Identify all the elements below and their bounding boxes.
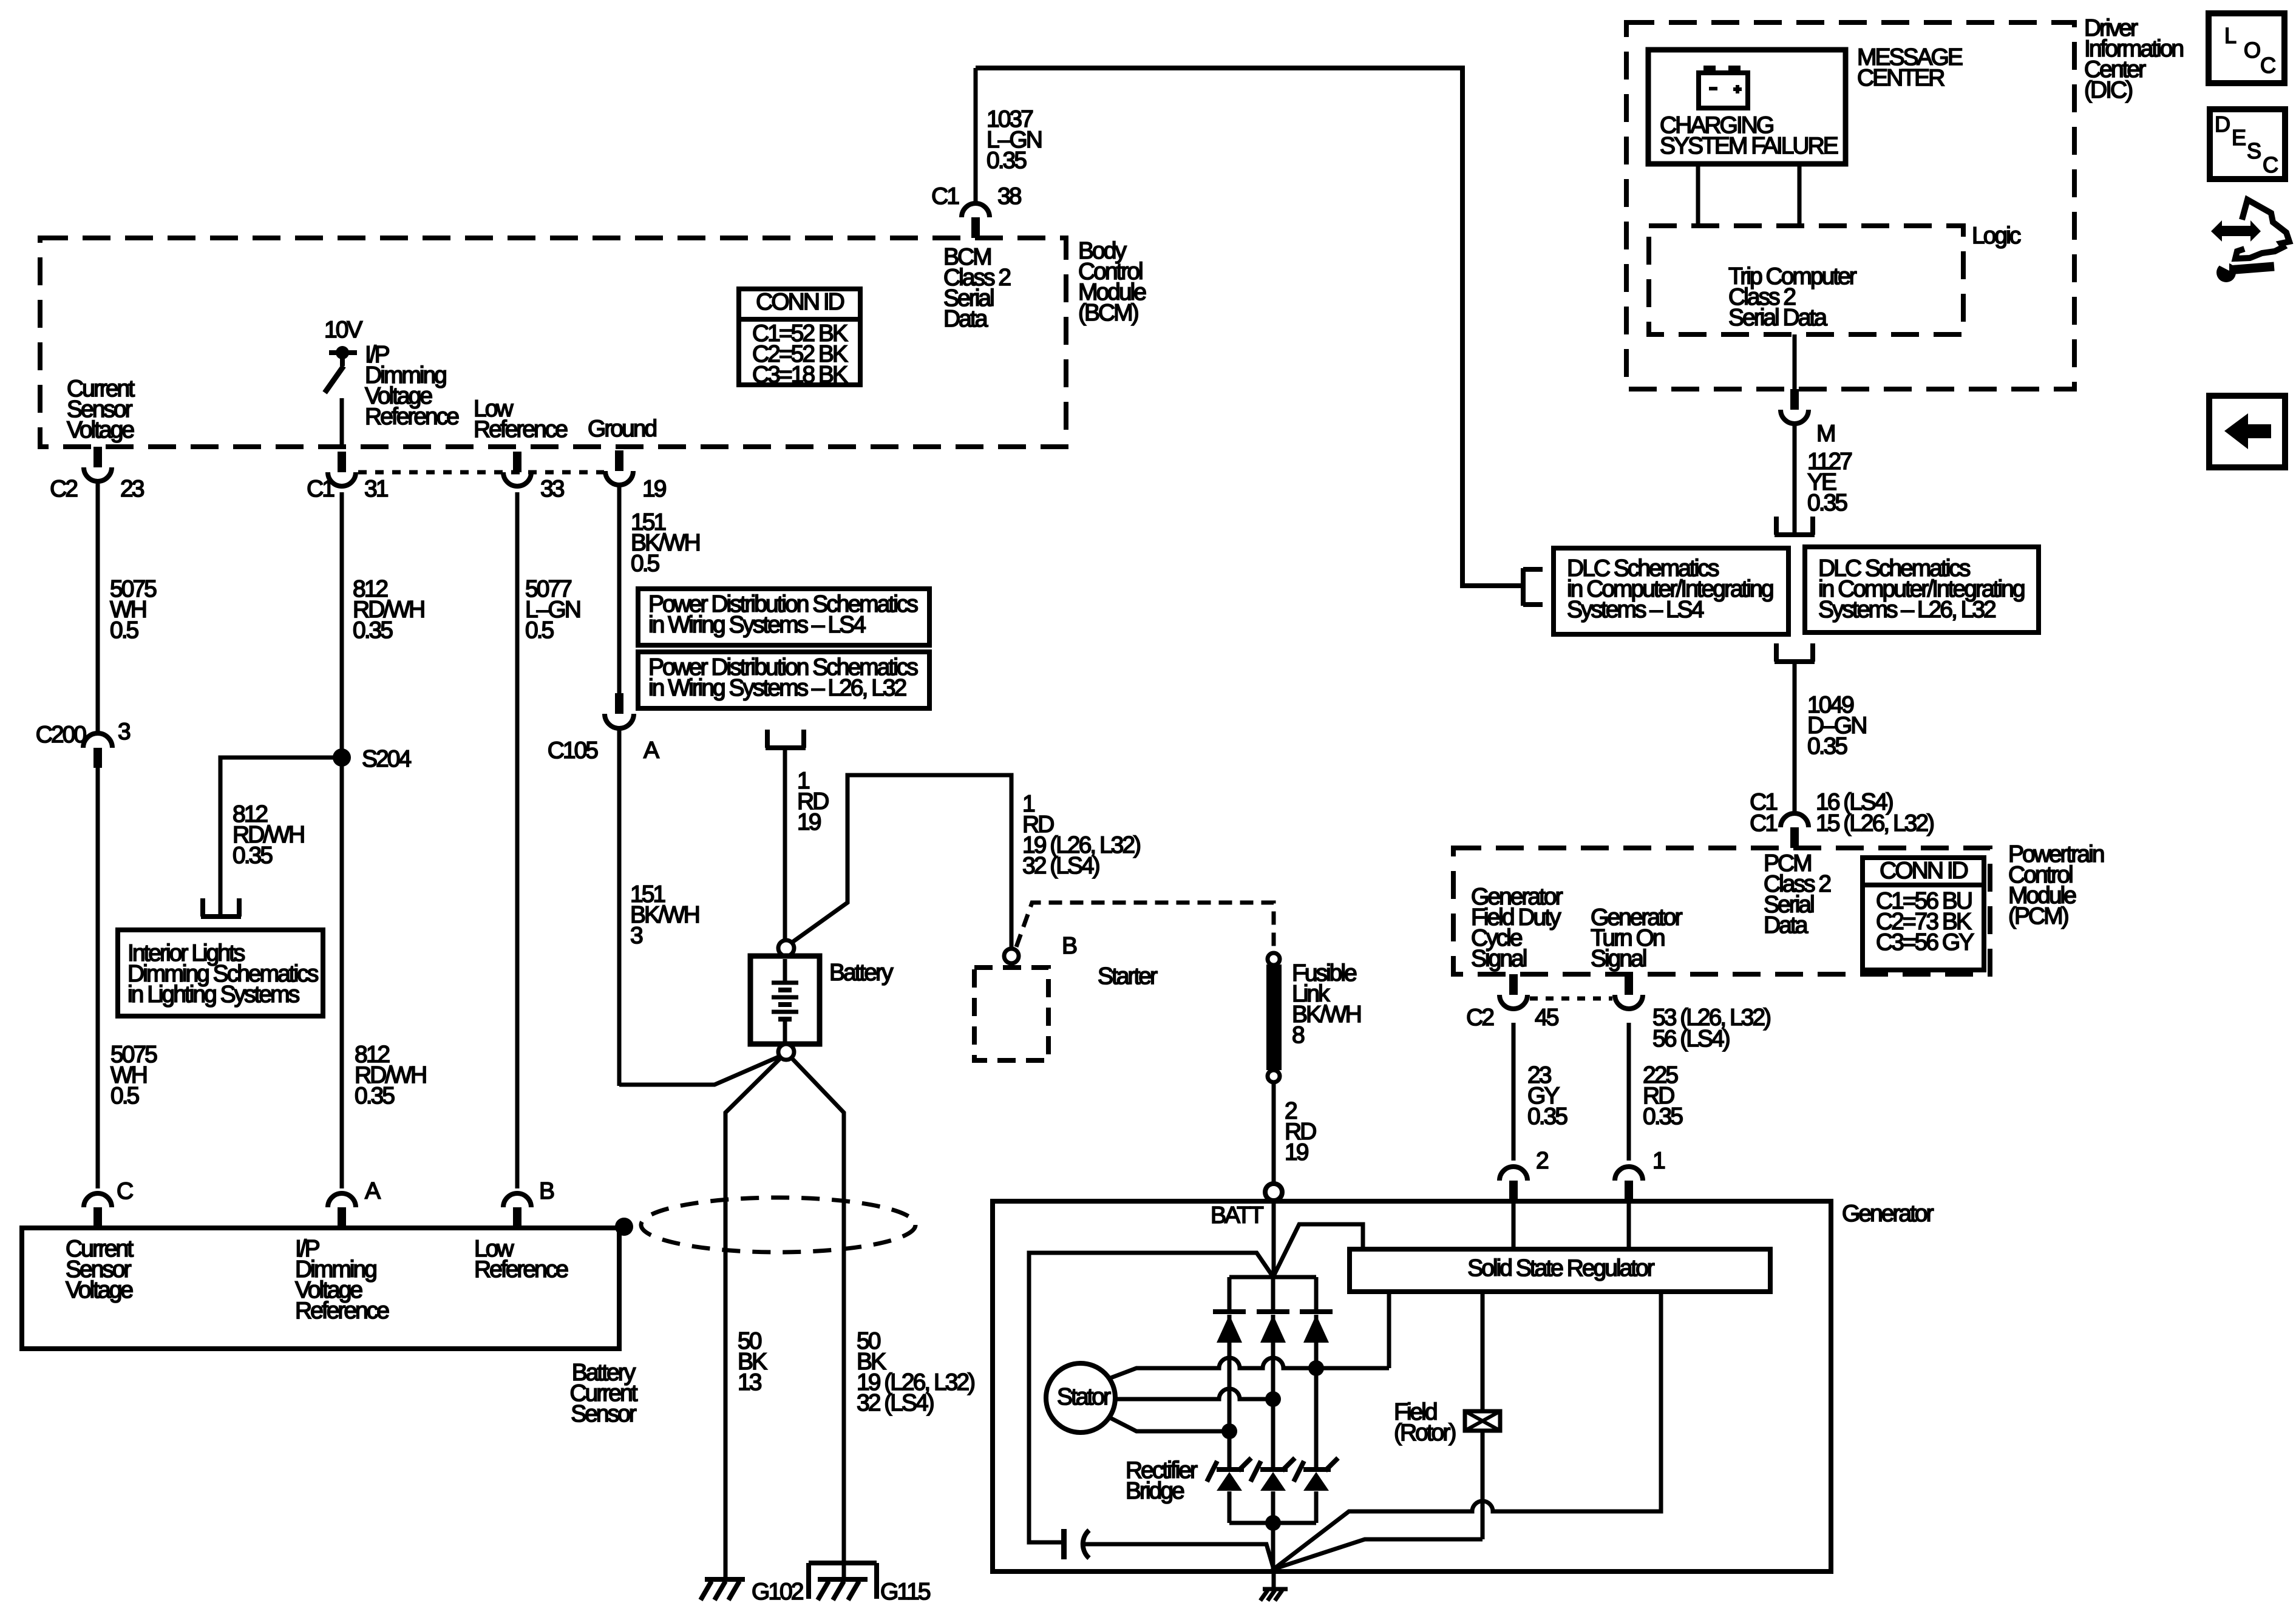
svg-text:Sensor: Sensor bbox=[571, 1401, 637, 1427]
junction dot phase 3 bbox=[1221, 1423, 1237, 1439]
wire rectifier to generator ground bbox=[1271, 1523, 1275, 1570]
svg-text:2: 2 bbox=[1536, 1148, 1548, 1174]
svg-text:A: A bbox=[365, 1178, 381, 1204]
wire 2 RD 19 from fusible link to generator BATT bbox=[1272, 1082, 1276, 1184]
svg-text:L: L bbox=[2224, 23, 2236, 48]
svg-text:0.5: 0.5 bbox=[631, 551, 660, 577]
svg-text:13: 13 bbox=[738, 1369, 761, 1395]
connector pin C on sensor box top edge bbox=[93, 1207, 102, 1228]
wire ground fan to regulator right pin (hops field wire) bbox=[1274, 1292, 1661, 1569]
svg-text:C1: C1 bbox=[1750, 810, 1777, 836]
ground G102 bbox=[705, 1577, 745, 1582]
reference box Power Distribution Schematics in Wiring Systems - LS4 bbox=[638, 589, 929, 645]
svg-text:Logic: Logic bbox=[1972, 223, 2021, 249]
module box Powertrain Control Module (PCM) dashed outline bbox=[1453, 848, 1990, 974]
wire ground fan to field rotor bbox=[1274, 1539, 1483, 1569]
battery box bbox=[750, 956, 820, 1044]
indicator box MESSAGE CENTER bbox=[1648, 50, 1846, 164]
svg-text:CENTER: CENTER bbox=[1857, 65, 1944, 91]
component box Generator bbox=[993, 1201, 1831, 1571]
svg-text:Reference: Reference bbox=[295, 1298, 389, 1324]
wire field rotor down bbox=[1481, 1431, 1485, 1539]
svg-text:3: 3 bbox=[630, 923, 642, 949]
svg-text:Ground: Ground bbox=[588, 416, 656, 442]
svg-text:15 (L26, L32): 15 (L26, L32) bbox=[1816, 810, 1934, 836]
svg-text:38: 38 bbox=[997, 183, 1021, 209]
capacitor (suppression) symbol bbox=[1061, 1529, 1067, 1559]
svg-text:in Wiring Systems – LS4: in Wiring Systems – LS4 bbox=[648, 612, 866, 638]
svg-text:Reference: Reference bbox=[474, 416, 567, 442]
svg-text:19: 19 bbox=[797, 809, 821, 835]
table CONN ID (BCM connectors) bbox=[739, 289, 860, 385]
svg-text:in Lighting Systems: in Lighting Systems bbox=[127, 981, 300, 1008]
wire regulator to field rotor bbox=[1481, 1292, 1485, 1411]
connector pin 53/56 on PCM bottom edge bbox=[1625, 974, 1633, 995]
svg-text:C3=56 GY: C3=56 GY bbox=[1876, 929, 1974, 955]
wire message center to logic (right) bbox=[1798, 164, 1802, 226]
svg-text:C: C bbox=[2263, 152, 2278, 177]
svg-text:(Rotor): (Rotor) bbox=[1394, 1420, 1455, 1446]
connector pin C2-23 on BCM bottom edge bbox=[93, 447, 102, 467]
stator phase line 2 (hops to middle rectifier leg) bbox=[1115, 1389, 1273, 1399]
battery negative terminal circle bbox=[778, 1044, 794, 1060]
battery cell symbol bbox=[783, 959, 787, 983]
wire from battery positive up to starter B terminal bbox=[792, 775, 1011, 949]
svg-text:Reference: Reference bbox=[474, 1256, 568, 1283]
svg-text:in Wiring Systems – L26, L32: in Wiring Systems – L26, L32 bbox=[648, 675, 906, 701]
svg-text:SYSTEM FAILURE: SYSTEM FAILURE bbox=[1660, 133, 1838, 159]
rectifier diode column 1 (lower avalanche diode) bbox=[1217, 1467, 1244, 1472]
wire logic to DIC connector M bbox=[1793, 334, 1797, 389]
wire 1037 L-GN from BCM up and right to DLC schematics bbox=[974, 68, 978, 203]
svg-text:C105: C105 bbox=[548, 737, 599, 764]
svg-text:Signal: Signal bbox=[1471, 946, 1527, 972]
svg-text:G102: G102 bbox=[752, 1579, 803, 1605]
icon vehicle with double arrow and wrench bbox=[2211, 220, 2261, 242]
module box Driver Information Center (DIC) dashed outline bbox=[1626, 22, 2074, 389]
stator phase line 1 (hops to third rectifier leg) bbox=[1109, 1358, 1389, 1378]
svg-text:32 (LS4): 32 (LS4) bbox=[857, 1390, 934, 1416]
off-page bracket below DLC schematics bbox=[1775, 659, 1815, 664]
svg-text:C1: C1 bbox=[307, 476, 334, 502]
stator phase line 3 (to first rectifier leg) bbox=[1109, 1417, 1229, 1431]
wire 5075 WH from C200 down to battery current sensor pin C bbox=[96, 768, 100, 1188]
generator BATT terminal circle bbox=[1265, 1184, 1282, 1201]
component box Solid State Regulator bbox=[1350, 1249, 1770, 1292]
off-page bracket into DLC Schematics LS4 box bbox=[1521, 568, 1526, 606]
connector pin 2 on generator top edge bbox=[1509, 1181, 1518, 1201]
svg-text:33: 33 bbox=[540, 476, 564, 502]
wire 50 BK 13 from battery negative to G102 bbox=[725, 1057, 782, 1579]
junction dot bottom rail bbox=[1265, 1515, 1281, 1531]
connector pin C1-16/15 on PCM top edge bbox=[1790, 827, 1799, 848]
svg-text:32 (LS4): 32 (LS4) bbox=[1022, 853, 1099, 879]
svg-text:C2: C2 bbox=[50, 476, 77, 502]
rectifier diode column 3 (upper diode) bbox=[1314, 1277, 1319, 1312]
rectifier bridge top rail bbox=[1229, 1275, 1316, 1280]
svg-text:Signal: Signal bbox=[1591, 946, 1646, 972]
svg-text:S: S bbox=[2247, 138, 2261, 163]
svg-text:56 (LS4): 56 (LS4) bbox=[1652, 1026, 1730, 1052]
svg-text:A: A bbox=[644, 737, 659, 764]
rectifier bridge bottom rail bbox=[1229, 1521, 1316, 1525]
svg-text:B: B bbox=[1062, 933, 1076, 959]
svg-text:C1: C1 bbox=[931, 183, 959, 209]
svg-text:CONN ID: CONN ID bbox=[1880, 858, 1968, 884]
svg-text:(DIC): (DIC) bbox=[2084, 77, 2132, 103]
svg-text:0.35: 0.35 bbox=[353, 617, 393, 643]
svg-text:Starter: Starter bbox=[1098, 963, 1158, 989]
dotted connector line linking PCM pins bbox=[1530, 997, 1612, 1001]
svg-text:Voltage: Voltage bbox=[67, 417, 134, 443]
svg-text:(BCM): (BCM) bbox=[1078, 300, 1138, 326]
component box Battery Current Sensor bbox=[22, 1228, 619, 1349]
svg-text:G115: G115 bbox=[880, 1579, 931, 1605]
svg-text:45: 45 bbox=[1535, 1005, 1559, 1031]
dashed harness ellipse bbox=[641, 1198, 915, 1252]
dotted connector line linking BCM C1 pins bbox=[358, 470, 604, 475]
rectifier diode column 2 (upper diode) bbox=[1271, 1277, 1275, 1312]
connector pin A on sensor box top edge bbox=[338, 1207, 346, 1228]
fusible link element BK/WH 8 bbox=[1266, 964, 1282, 1070]
wire capacitor to generator ground bbox=[1082, 1544, 1274, 1569]
svg-text:O: O bbox=[2244, 38, 2260, 63]
svg-text:0.35: 0.35 bbox=[1643, 1103, 1683, 1130]
off-page bracket to interior lights dimming schematics bbox=[201, 914, 241, 919]
svg-text:0.5: 0.5 bbox=[525, 617, 554, 643]
connector pin C1-31 on BCM bottom edge bbox=[338, 452, 346, 472]
wire 5077 L-GN from BCM 33 down to sensor pin B bbox=[515, 492, 520, 1188]
rectifier diode column 1 (upper diode) bbox=[1228, 1277, 1232, 1312]
rectifier diode column 3 (lower avalanche diode) bbox=[1303, 1467, 1331, 1472]
svg-text:Generator: Generator bbox=[1842, 1201, 1934, 1227]
wire message center to logic (left) bbox=[1696, 164, 1700, 226]
off-page bracket from power distribution bbox=[766, 745, 806, 750]
svg-text:C: C bbox=[117, 1178, 133, 1204]
icon box DESC bbox=[2210, 109, 2285, 179]
svg-text:0.35: 0.35 bbox=[355, 1083, 395, 1109]
table CONN ID (PCM connectors) bbox=[1863, 858, 1984, 970]
svg-text:CONN ID: CONN ID bbox=[756, 289, 844, 315]
wire 1 RD 19 from power distribution to battery positive bbox=[783, 748, 787, 940]
connector pin C2-45 on PCM bottom edge bbox=[1509, 974, 1518, 995]
wire 1049 D-GN from DLC to PCM bbox=[1793, 662, 1797, 815]
wire left loop from BATT node to capacitor bbox=[1029, 1253, 1272, 1542]
reference box Power Distribution Schematics in Wiring Systems - L26 L32 bbox=[638, 652, 929, 708]
svg-text:C: C bbox=[2260, 53, 2275, 78]
svg-text:M: M bbox=[1816, 421, 1835, 447]
reference box DLC Schematics in Computer/Integrating Systems - L26 L32 bbox=[1805, 547, 2039, 632]
wire 812 RD/WH from BCM C1-31 down through S204 to sensor pin A bbox=[340, 492, 344, 1188]
ground G115 with bracket bbox=[809, 1561, 877, 1565]
svg-text:8: 8 bbox=[1292, 1022, 1304, 1048]
dashed wire from starter B to fusible link bbox=[1016, 903, 1274, 951]
svg-text:Systems – L26, L32: Systems – L26, L32 bbox=[1818, 597, 1995, 623]
connector pin C1-38 on BCM top edge bbox=[971, 217, 980, 238]
connector pin M on DIC bottom edge bbox=[1790, 389, 1799, 410]
junction dot phase 1 bbox=[1308, 1360, 1324, 1376]
wire branch 812 RD/WH from S204 to interior lights schematic bbox=[220, 758, 340, 914]
wire 225 RD from PCM to generator pin 1 bbox=[1627, 1023, 1631, 1161]
svg-text:Serial Data: Serial Data bbox=[1728, 305, 1827, 331]
svg-text:Systems – LS4: Systems – LS4 bbox=[1567, 597, 1704, 623]
svg-text:S204: S204 bbox=[362, 746, 411, 772]
connector pin 19 (Ground) on BCM bottom edge bbox=[615, 450, 623, 471]
inline connector C200 pin 3 bbox=[83, 733, 112, 748]
wire generator pin 1 to regulator bbox=[1627, 1204, 1631, 1249]
reference box Interior Lights Dimming Schematics in Lighting Systems bbox=[118, 930, 323, 1016]
wire 23 GY from PCM C2-45 to generator pin 2 bbox=[1512, 1023, 1516, 1161]
splice S204 bbox=[333, 748, 351, 767]
svg-text:D: D bbox=[2215, 112, 2230, 137]
connector pin B on sensor box top edge bbox=[513, 1207, 521, 1228]
svg-text:Stator: Stator bbox=[1057, 1384, 1111, 1410]
wire 1127 YE from DIC to DLC schematics bbox=[1793, 424, 1797, 533]
icon box back arrow bbox=[2209, 396, 2285, 467]
svg-text:3: 3 bbox=[118, 719, 130, 745]
svg-text:31: 31 bbox=[364, 476, 388, 502]
wire BATT branch to regulator bbox=[1274, 1224, 1363, 1276]
svg-text:C3=18 BK: C3=18 BK bbox=[752, 362, 848, 388]
svg-text:23: 23 bbox=[120, 476, 144, 502]
inline connector C105 pin A bbox=[615, 693, 623, 714]
module box BCM (Body Control Module) dashed outline bbox=[40, 238, 1066, 447]
svg-text:B: B bbox=[539, 1178, 554, 1204]
battery warning icon bbox=[1699, 73, 1748, 108]
wire 151 BK/WH from BCM 19 down to C105 bbox=[617, 484, 622, 693]
svg-text:0.35: 0.35 bbox=[1527, 1103, 1567, 1130]
svg-text:10V: 10V bbox=[324, 317, 362, 343]
starter B terminal circle bbox=[1004, 949, 1019, 963]
stator winding circle bbox=[1046, 1363, 1115, 1432]
svg-text:Solid State Regulator: Solid State Regulator bbox=[1467, 1255, 1655, 1281]
svg-text:C200: C200 bbox=[36, 722, 87, 748]
module box Starter dashed outline bbox=[974, 968, 1048, 1060]
rectifier diode column 2 (lower avalanche diode) bbox=[1260, 1467, 1288, 1472]
wire 5075 WH from BCM C2-23 down to C200 bbox=[96, 481, 100, 733]
wire 151 BK/WH 3 from C105 down to battery negative bbox=[617, 728, 622, 1086]
svg-text:Data: Data bbox=[1764, 912, 1809, 938]
generator internal ground symbol bbox=[1272, 1569, 1276, 1590]
icon box LOC bbox=[2209, 13, 2284, 83]
svg-text:C2: C2 bbox=[1466, 1005, 1493, 1031]
field rotor winding symbol bbox=[1465, 1411, 1500, 1431]
wire generator pin 2 to regulator bbox=[1512, 1204, 1516, 1249]
wire BATT vertical into rectifier bbox=[1272, 1201, 1276, 1277]
svg-text:0.35: 0.35 bbox=[987, 147, 1027, 174]
off-page bracket above DLC schematics bbox=[1775, 532, 1815, 537]
svg-text:Voltage: Voltage bbox=[66, 1277, 132, 1303]
svg-text:0.5: 0.5 bbox=[110, 1083, 140, 1109]
svg-text:0.35: 0.35 bbox=[1807, 733, 1847, 759]
reference box DLC Schematics in Computer/Integrating Systems - LS4 bbox=[1554, 548, 1788, 634]
svg-text:0.5: 0.5 bbox=[110, 617, 139, 643]
wire phase 1 up to regulator bbox=[1387, 1293, 1391, 1368]
svg-text:19: 19 bbox=[1285, 1139, 1308, 1165]
svg-text:BATT: BATT bbox=[1211, 1202, 1263, 1229]
wire 50 BK to G115 bbox=[790, 1057, 844, 1579]
fusible link terminal circle (bottom) bbox=[1268, 1070, 1280, 1082]
svg-text:Bridge: Bridge bbox=[1126, 1478, 1184, 1504]
svg-text:Data: Data bbox=[943, 306, 988, 332]
connector pin 33 on BCM bottom edge bbox=[513, 452, 521, 472]
wire elbow to battery negative terminal bbox=[619, 1056, 780, 1085]
svg-text:0.35: 0.35 bbox=[233, 842, 273, 869]
svg-text:1: 1 bbox=[1652, 1148, 1665, 1174]
junction dot at sensor corner bbox=[615, 1218, 633, 1236]
battery positive terminal circle bbox=[778, 940, 794, 956]
svg-text:Battery: Battery bbox=[829, 960, 894, 986]
connector pin 1 on generator top edge bbox=[1625, 1181, 1633, 1201]
svg-text:19: 19 bbox=[642, 476, 666, 502]
svg-text:0.35: 0.35 bbox=[1807, 490, 1847, 516]
svg-text:Reference: Reference bbox=[365, 404, 458, 430]
svg-text:(PCM): (PCM) bbox=[2008, 903, 2068, 929]
svg-text:E: E bbox=[2232, 125, 2246, 150]
fusible link terminal circle (top) bbox=[1268, 953, 1280, 965]
junction dot phase 2 bbox=[1265, 1391, 1281, 1407]
module box Logic dashed outline bbox=[1649, 226, 1963, 334]
